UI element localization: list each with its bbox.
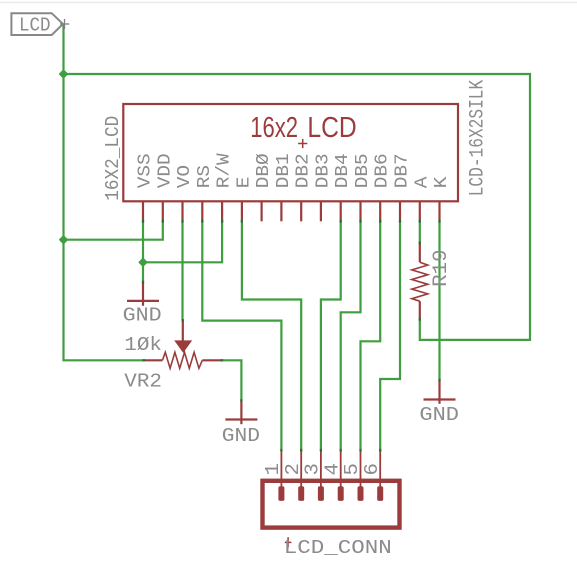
- svg-text:2: 2: [282, 463, 304, 476]
- svg-text:LCD: LCD: [19, 14, 51, 36]
- svg-text:GND: GND: [419, 404, 459, 426]
- svg-text:VDD: VDD: [154, 153, 175, 188]
- svg-text:5: 5: [341, 463, 363, 476]
- svg-text:1: 1: [262, 463, 284, 476]
- svg-text:RS: RS: [194, 165, 215, 188]
- svg-text:VSS: VSS: [135, 153, 156, 188]
- svg-text:DB4: DB4: [332, 153, 353, 188]
- svg-text:LCD-16X2SILK: LCD-16X2SILK: [467, 79, 490, 196]
- svg-text:DB7: DB7: [392, 153, 413, 188]
- svg-text:GND: GND: [222, 425, 260, 447]
- svg-text:DB5: DB5: [352, 153, 373, 188]
- svg-text:K: K: [431, 176, 452, 189]
- svg-text:R19: R19: [430, 249, 453, 287]
- svg-text:VO: VO: [174, 165, 195, 188]
- svg-text:3: 3: [302, 463, 324, 476]
- svg-text:16X2_LCD: 16X2_LCD: [102, 116, 124, 201]
- svg-text:DB1: DB1: [273, 153, 294, 188]
- svg-text:DBØ: DBØ: [253, 153, 274, 188]
- svg-text:LCD_CONN: LCD_CONN: [284, 537, 392, 559]
- svg-text:6: 6: [361, 463, 383, 476]
- svg-text:DB2: DB2: [293, 153, 314, 188]
- svg-text:A: A: [411, 176, 432, 189]
- svg-text:4: 4: [321, 463, 343, 476]
- svg-text:VR2: VR2: [124, 370, 162, 392]
- svg-text:1Øk: 1Øk: [124, 334, 162, 356]
- svg-text:GND: GND: [123, 305, 162, 327]
- svg-text:DB6: DB6: [372, 153, 393, 188]
- svg-text:E: E: [233, 177, 254, 189]
- svg-text:LCD: LCD: [307, 112, 356, 144]
- svg-text:R/W: R/W: [214, 152, 235, 188]
- svg-text:DB3: DB3: [312, 153, 333, 188]
- svg-text:16x2: 16x2: [250, 112, 298, 144]
